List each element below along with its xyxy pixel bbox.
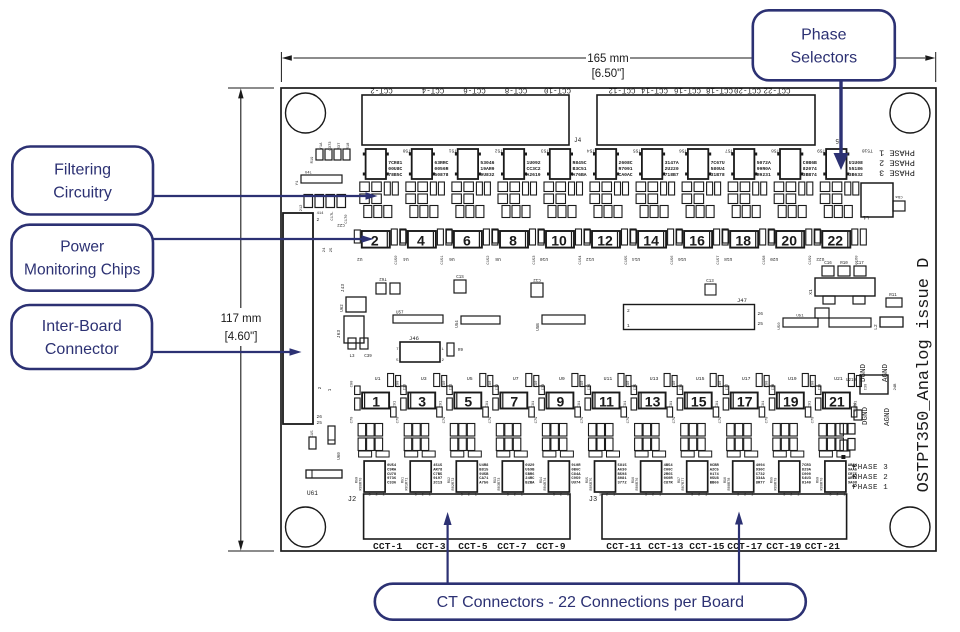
svg-text:0056R: 0056R: [434, 166, 448, 172]
transformer T10: [547, 148, 595, 180]
svg-text:R86R76: R86R76: [636, 478, 640, 491]
svg-text:U61: U61: [307, 490, 318, 497]
power monitoring chip 16: [677, 229, 729, 265]
svg-text:R98: R98: [724, 477, 728, 483]
resistor bar U57: [393, 312, 443, 324]
svg-text:82074: 82074: [803, 166, 817, 172]
side caps channel 13: [627, 380, 674, 424]
side caps channel 3: [397, 380, 444, 424]
svg-text:DGND: DGND: [860, 364, 868, 383]
svg-text:9U5B: 9U5B: [479, 473, 489, 477]
silkscreen text beside T18: [757, 160, 771, 178]
power monitoring chip 10: [539, 229, 591, 265]
svg-text:U18: U18: [724, 256, 732, 262]
svg-text:8: 8: [509, 232, 517, 248]
capacitor C12: [531, 277, 543, 297]
silkscreen text beside T4: [434, 160, 448, 178]
power monitoring chip 3: [408, 393, 435, 410]
power monitoring chip 9: [546, 393, 573, 410]
svg-text:C91: C91: [532, 401, 536, 407]
svg-text:J4: J4: [574, 137, 582, 144]
svg-text:24B: 24B: [894, 383, 898, 391]
svg-text:PHASE 1: PHASE 1: [853, 484, 889, 492]
filter capacitors channel 2: [360, 182, 399, 218]
svg-text:C1S: C1S: [456, 276, 464, 280]
svg-text:Y1: Y1: [296, 180, 300, 185]
svg-text:CCT-5: CCT-5: [458, 541, 488, 552]
svg-text:C158: C158: [763, 255, 767, 265]
label U5: [467, 376, 473, 382]
inter-board connector J1: [283, 213, 346, 426]
output IC channel 19: [770, 461, 800, 498]
silkscreen text beside T12: [619, 160, 633, 178]
connector J2 bottom-left block: [348, 494, 570, 539]
svg-text:C79: C79: [627, 416, 631, 424]
transformer T6: [455, 148, 503, 180]
label PHASE 2 (bottom right): [852, 474, 888, 482]
svg-text:U1U08: U1U08: [849, 160, 863, 166]
power monitoring chip 12: [585, 229, 637, 265]
label U15: [696, 376, 705, 382]
svg-text:1U092: 1U092: [527, 160, 541, 166]
svg-text:PHASE 2: PHASE 2: [853, 474, 889, 482]
label CCT-16 (top, flipped): [674, 86, 702, 94]
svg-text:CC3C2: CC3C2: [527, 166, 541, 172]
pads channel 21: [819, 451, 850, 457]
silkscreen text beside IC 7: [525, 464, 535, 486]
svg-text:C31: C31: [450, 384, 454, 390]
capacitor U60 left: [328, 426, 342, 460]
IC U62: [341, 297, 366, 312]
svg-text:C91: C91: [394, 401, 398, 407]
transformer T12: [593, 148, 641, 180]
output IC channel 17: [724, 461, 754, 498]
svg-text:930C: 930C: [756, 468, 766, 472]
svg-text:12: 12: [597, 232, 613, 248]
svg-text:C16: C16: [824, 262, 832, 266]
svg-text:718B7: 718B7: [665, 172, 679, 178]
output IC channel 15: [678, 461, 708, 498]
svg-text:CCT-14: CCT-14: [641, 86, 669, 94]
svg-text:U15: U15: [696, 376, 705, 382]
leader arrow inter-board connector: [152, 348, 302, 356]
svg-text:060R: 060R: [664, 477, 674, 481]
svg-text:AGND: AGND: [882, 364, 890, 383]
svg-text:334A: 334A: [756, 477, 766, 481]
svg-text:U14: U14: [632, 256, 640, 262]
caps above chip 11: [618, 374, 638, 391]
filter capacitors channel 8: [498, 182, 537, 218]
capacitor C15 mid: [454, 276, 466, 293]
svg-text:55186: 55186: [849, 166, 863, 172]
capacitor block channel 21: [819, 424, 844, 451]
power monitoring chip 4: [400, 229, 452, 265]
power monitoring chip 2: [354, 229, 406, 265]
svg-text:C30: C30: [404, 384, 408, 390]
svg-text:0174: 0174: [710, 473, 720, 477]
svg-text:54U3: 54U3: [802, 477, 812, 481]
svg-text:U17: U17: [742, 376, 751, 382]
svg-text:U50: U50: [778, 322, 782, 330]
svg-text:2608C: 2608C: [619, 160, 633, 166]
ground select block U219: [846, 364, 898, 427]
power monitoring chip 14: [631, 229, 683, 265]
leader arrow CT connectors left: [444, 512, 452, 584]
caps above chip 1: [388, 374, 408, 391]
label U13: [650, 376, 659, 382]
svg-text:OSTPT350_Analog issue D: OSTPT350_Analog issue D: [915, 258, 934, 493]
svg-text:4: 4: [417, 232, 425, 248]
leader arrow power monitoring chips: [153, 235, 374, 243]
capacitor C15 left: [309, 430, 316, 449]
svg-text:U57: U57: [396, 312, 404, 316]
svg-text:R87R77: R87R77: [682, 478, 686, 491]
svg-text:R90: R90: [356, 477, 360, 483]
svg-text:A630: A630: [618, 468, 628, 472]
label PHASE 2 (top right, flipped): [879, 158, 915, 168]
svg-text:CCT-8: CCT-8: [505, 86, 528, 94]
output IC channel 7: [494, 461, 524, 498]
svg-text:C152: C152: [487, 255, 491, 265]
svg-text:R83R73: R83R73: [498, 478, 502, 491]
capacitor block channel 3: [404, 424, 429, 451]
svg-text:R80R70: R80R70: [360, 478, 364, 491]
svg-text:C154: C154: [579, 255, 583, 265]
svg-text:0U29: 0U29: [525, 464, 535, 468]
svg-text:3BB74: 3BB74: [803, 172, 817, 178]
transformer T14: [639, 148, 687, 180]
side caps channel 9: [535, 380, 582, 424]
power monitoring chip 20: [769, 229, 820, 265]
label CCT-2 (top, flipped): [370, 86, 393, 94]
svg-text:13: 13: [645, 394, 661, 410]
svg-text:C38: C38: [772, 384, 776, 390]
svg-text:U1: U1: [375, 376, 381, 382]
svg-text:C35: C35: [634, 384, 638, 390]
svg-text:C79: C79: [811, 416, 815, 424]
output IC channel 13: [632, 461, 662, 498]
side caps channel 15: [673, 380, 720, 424]
leader arrow phase selectors: [834, 80, 849, 170]
output IC channel 11: [586, 461, 616, 498]
silkscreen text beside IC 17: [756, 464, 766, 486]
svg-text:R10: R10: [840, 262, 848, 266]
svg-text:165 mm: 165 mm: [587, 53, 629, 65]
svg-text:C159: C159: [809, 255, 813, 265]
svg-text:9: 9: [557, 394, 565, 410]
label CCT-7 (bottom): [497, 541, 527, 552]
label CCT-14 (top, flipped): [641, 86, 669, 94]
svg-text:0B6C: 0B6C: [571, 468, 581, 472]
svg-text:00U8C: 00U8C: [388, 166, 402, 172]
svg-text:17: 17: [737, 394, 753, 410]
svg-text:4B54: 4B54: [664, 464, 674, 468]
svg-text:C9a: C9a: [895, 194, 903, 198]
svg-text:C90: C90: [581, 380, 585, 388]
dimension 117mm vertical: [221, 88, 274, 551]
caps above chip 9: [572, 374, 592, 391]
silkscreen text beside T2: [388, 160, 402, 178]
svg-text:910R: 910R: [571, 464, 581, 468]
label CCT-13 (bottom): [648, 541, 684, 552]
label PHASE 3 (top right, flipped): [879, 168, 915, 178]
svg-text:C336: C336: [387, 482, 397, 486]
svg-text:15: 15: [691, 394, 707, 410]
label CCT-12 (top, flipped): [608, 86, 635, 94]
pin labels near J1 bottom: [319, 386, 333, 391]
connector J5 top-right block: [597, 95, 843, 145]
svg-text:CCT-10: CCT-10: [544, 86, 572, 94]
filter capacitors channel 6: [452, 182, 491, 218]
callout Filtering Circuitry: [12, 147, 153, 215]
label CCT-17 (bottom): [727, 541, 763, 552]
svg-text:R11: R11: [889, 294, 897, 298]
svg-text:PHASE 1: PHASE 1: [879, 148, 915, 158]
svg-text:U9: U9: [559, 376, 565, 382]
caps above chip 3: [434, 374, 454, 391]
svg-text:R97: R97: [678, 477, 682, 483]
svg-text:J43: J43: [340, 284, 346, 292]
svg-text:CCT-20: CCT-20: [734, 86, 762, 94]
svg-text:B2BA: B2BA: [525, 482, 535, 486]
resistor bars U50/U51: [778, 308, 871, 330]
silkscreen text beside IC 19: [802, 464, 812, 486]
power monitoring chip 13: [639, 393, 666, 410]
mounting hole top-left: [286, 93, 326, 133]
svg-text:7C67U: 7C67U: [711, 160, 725, 166]
svg-text:1: 1: [627, 323, 630, 329]
svg-text:U3: U3: [421, 376, 427, 382]
side caps channel 5: [443, 380, 490, 424]
svg-text:DGND: DGND: [862, 407, 870, 426]
output IC channel 9: [540, 461, 570, 498]
svg-text:CCT-18: CCT-18: [706, 86, 733, 94]
svg-text:[4.60"]: [4.60"]: [225, 331, 258, 343]
svg-text:C00C: C00C: [664, 468, 674, 472]
svg-text:C17: C17: [856, 262, 864, 266]
resistor bar U58: [537, 315, 585, 331]
power monitoring chip 18: [723, 229, 775, 265]
svg-text:C36: C36: [680, 384, 684, 390]
svg-text:Power: Power: [60, 239, 104, 256]
svg-text:14: 14: [643, 232, 659, 248]
svg-text:A2619: A2619: [527, 172, 541, 178]
svg-text:25: 25: [330, 247, 334, 252]
svg-text:8081: 8081: [618, 477, 628, 481]
caps above chip 21: [848, 374, 868, 391]
svg-text:Inter-Board: Inter-Board: [42, 318, 122, 335]
board name OSTPT350_Analog issue D: [915, 258, 934, 493]
svg-text:C7B5: C7B5: [433, 473, 443, 477]
svg-text:R845C: R845C: [573, 160, 587, 166]
caps above chip 13: [664, 374, 684, 391]
power monitoring chip 6: [446, 229, 498, 265]
svg-text:L3: L3: [349, 355, 355, 359]
caps above chip 7: [526, 374, 546, 391]
caps top-left corner group: [311, 141, 351, 164]
svg-text:829A: 829A: [802, 468, 812, 472]
svg-text:R80R70: R80R70: [820, 478, 824, 491]
power monitoring chip 8: [493, 229, 545, 265]
label U21: [834, 376, 843, 382]
svg-text:C90: C90: [489, 380, 493, 388]
svg-text:R85R75: R85R75: [590, 478, 594, 491]
caps above chip 15: [710, 374, 730, 391]
svg-text:R89R79: R89R79: [774, 478, 778, 491]
svg-text:8R77: 8R77: [756, 482, 766, 486]
svg-text:U10: U10: [540, 256, 548, 262]
callout CT Connectors: [375, 584, 806, 620]
svg-text:C150: C150: [395, 255, 399, 265]
filter capacitors channel 16: [682, 182, 721, 218]
svg-text:U12: U12: [586, 256, 594, 262]
svg-text:PHASE 3: PHASE 3: [879, 168, 915, 178]
svg-text:U60: U60: [338, 452, 342, 460]
svg-text:AGND: AGND: [884, 408, 892, 427]
mounting hole bottom-left: [286, 507, 326, 547]
silkscreen text beside IC 13: [664, 464, 674, 486]
svg-text:CCT-15: CCT-15: [689, 541, 725, 552]
label CCT-22 (top, flipped): [763, 86, 790, 94]
caps right of channel 21: [840, 424, 855, 460]
svg-text:C79: C79: [443, 416, 447, 424]
svg-text:19: 19: [783, 394, 799, 410]
svg-text:B598: B598: [618, 473, 628, 477]
filtering caps row left: [300, 195, 349, 227]
pads channel 17: [727, 451, 758, 457]
dimension 165mm horizontal: [281, 52, 935, 82]
callout Phase Selectors: [753, 10, 895, 80]
svg-text:R94: R94: [540, 477, 544, 483]
crystal Y1: [296, 172, 342, 186]
svg-text:16: 16: [689, 232, 705, 248]
svg-text:C30: C30: [864, 384, 868, 390]
label CCT-8 (top, flipped): [505, 86, 528, 94]
capacitor C13 mid: [705, 280, 716, 295]
power monitoring chip 1: [362, 393, 389, 410]
svg-text:C91: C91: [578, 401, 582, 407]
label U17: [742, 376, 751, 382]
pads channel 19: [773, 451, 804, 457]
svg-text:U13: U13: [650, 376, 659, 382]
svg-text:5072A: 5072A: [757, 160, 771, 166]
svg-text:26: 26: [758, 311, 764, 317]
label CCT-4 (top, flipped): [421, 86, 444, 94]
svg-text:212: 212: [300, 204, 304, 212]
silkscreen text beside T8: [527, 160, 541, 178]
svg-text:U7: U7: [513, 376, 519, 382]
mounting hole bottom-right: [890, 507, 930, 547]
svg-text:3B632: 3B632: [849, 172, 863, 178]
svg-text:C157: C157: [717, 255, 721, 264]
label CCT-15 (bottom): [689, 541, 725, 552]
svg-text:CCT-1: CCT-1: [373, 541, 403, 552]
svg-text:Selectors: Selectors: [790, 49, 857, 66]
svg-text:C87R: C87R: [664, 482, 674, 486]
svg-text:25: 25: [758, 321, 764, 327]
svg-text:CCT-16: CCT-16: [674, 86, 702, 94]
svg-text:R95: R95: [586, 477, 590, 483]
svg-text:C90: C90: [765, 380, 769, 388]
svg-text:25: 25: [317, 420, 323, 426]
filter capacitors channel 18: [728, 182, 767, 218]
svg-text:R88R78: R88R78: [728, 478, 732, 491]
svg-text:C90: C90: [443, 380, 447, 388]
silkscreen text beside T10: [573, 160, 587, 178]
svg-text:9736: 9736: [387, 477, 397, 481]
component X1: [808, 262, 875, 304]
pads channel 1: [359, 451, 390, 457]
label CCT-18 (top, flipped): [706, 86, 733, 94]
silkscreen text beside IC 1: [387, 464, 397, 486]
svg-text:R96: R96: [632, 477, 636, 483]
svg-text:AR78: AR78: [433, 468, 443, 472]
capacitor block channel 9: [542, 424, 567, 451]
callout Power Monitoring Chips: [12, 225, 154, 291]
svg-text:R81R71: R81R71: [406, 478, 410, 491]
svg-text:A76BA: A76BA: [573, 172, 587, 178]
svg-text:R99: R99: [770, 477, 774, 483]
capacitor block channel 19: [773, 424, 798, 451]
svg-text:19AR9: 19AR9: [480, 166, 494, 172]
svg-text:R90: R90: [816, 477, 820, 483]
capacitor block channel 17: [727, 424, 752, 451]
svg-text:580U4: 580U4: [711, 166, 725, 172]
label U19: [788, 376, 797, 382]
silkscreen text beside T14: [665, 160, 679, 178]
svg-text:Connector: Connector: [45, 341, 119, 358]
svg-text:Y1A: Y1A: [320, 142, 324, 150]
filter capacitors channel 14: [636, 182, 675, 218]
svg-text:CCT-12: CCT-12: [608, 86, 635, 94]
svg-text:U5: U5: [467, 376, 473, 382]
svg-text:C151: C151: [441, 255, 445, 265]
svg-text:CCT-2: CCT-2: [370, 86, 393, 94]
silkscreen text beside IC 15: [710, 464, 720, 486]
power monitoring chip 22: [815, 229, 867, 265]
svg-text:CA0AC: CA0AC: [619, 172, 633, 178]
svg-text:63RRC: 63RRC: [434, 160, 448, 166]
svg-text:2R65: 2R65: [664, 473, 674, 477]
svg-text:4515: 4515: [433, 464, 443, 468]
leader arrow CT connectors right: [735, 512, 743, 584]
svg-text:R9: R9: [458, 349, 464, 353]
svg-text:C79: C79: [581, 416, 585, 424]
svg-text:BB66: BB66: [710, 482, 720, 486]
connector J4 top-left block: [362, 95, 582, 145]
svg-text:U21: U21: [834, 376, 843, 382]
svg-text:C373: C373: [329, 141, 333, 151]
silkscreen text beside IC 3: [433, 464, 443, 486]
resistor bar U54: [456, 316, 500, 328]
svg-text:UU74: UU74: [571, 482, 581, 486]
svg-text:C90: C90: [673, 380, 677, 388]
svg-text:R84R74: R84R74: [544, 478, 548, 491]
svg-text:11: 11: [599, 394, 614, 410]
resistor bar U61: [306, 470, 342, 497]
transformer T18: [731, 148, 779, 180]
svg-text:C153: C153: [533, 255, 537, 265]
svg-text:R82R72: R82R72: [452, 478, 456, 491]
svg-text:26: 26: [317, 414, 323, 420]
svg-text:U4R8: U4R8: [479, 464, 489, 468]
inductor L1 right: [861, 183, 905, 220]
svg-text:99R0A: 99R0A: [757, 166, 771, 172]
svg-text:C91: C91: [624, 401, 628, 407]
svg-text:2U220: 2U220: [665, 166, 679, 172]
svg-text:CCT-3: CCT-3: [416, 541, 446, 552]
filter capacitors channel 12: [590, 182, 629, 218]
